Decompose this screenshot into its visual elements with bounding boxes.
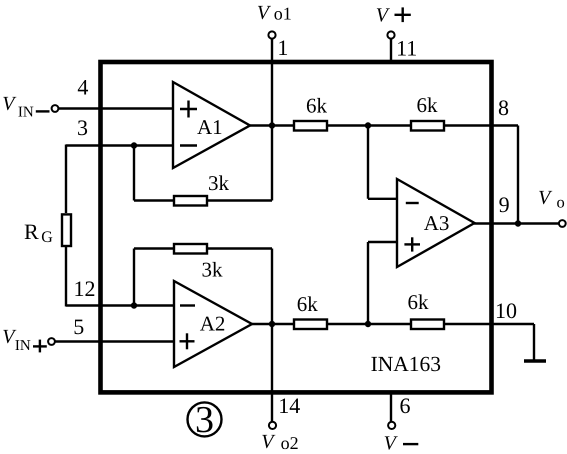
svg-text:A3: A3: [424, 211, 450, 235]
svg-text:4: 4: [77, 75, 88, 100]
svg-text:6k: 6k: [417, 93, 439, 117]
svg-text:3k: 3k: [202, 257, 224, 281]
svg-text:5: 5: [73, 314, 84, 339]
svg-text:6k: 6k: [297, 292, 319, 316]
svg-text:3: 3: [77, 115, 88, 140]
svg-text:A1: A1: [197, 115, 223, 139]
svg-text:9: 9: [499, 192, 510, 217]
svg-text:8: 8: [498, 95, 509, 120]
svg-text:R: R: [24, 219, 39, 244]
svg-text:o: o: [557, 193, 565, 212]
svg-text:6k: 6k: [306, 93, 328, 117]
svg-text:12: 12: [74, 276, 96, 301]
svg-text:10: 10: [495, 298, 517, 323]
svg-text:o1: o1: [274, 4, 292, 24]
svg-text:3k: 3k: [208, 171, 230, 195]
svg-text:3: 3: [195, 399, 214, 441]
svg-text:G: G: [41, 229, 53, 246]
svg-text:14: 14: [278, 393, 300, 418]
svg-text:o2: o2: [281, 433, 299, 453]
svg-text:6k: 6k: [408, 290, 430, 314]
svg-text:INA163: INA163: [371, 352, 441, 376]
svg-text:IN: IN: [18, 105, 34, 121]
svg-text:A2: A2: [200, 311, 226, 335]
svg-text:IN: IN: [15, 338, 31, 354]
svg-text:11: 11: [396, 36, 417, 61]
svg-text:6: 6: [400, 393, 411, 418]
svg-text:1: 1: [277, 35, 288, 60]
